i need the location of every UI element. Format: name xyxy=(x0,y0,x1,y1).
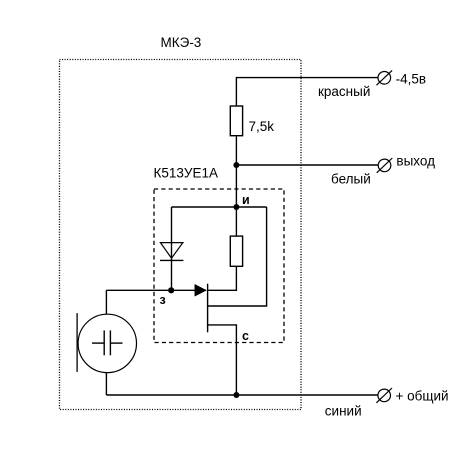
wire: output node to выход terminal xyxy=(236,164,378,166)
node и (source rail junction) xyxy=(233,204,239,210)
capacitor plates inside mic xyxy=(103,330,105,355)
node: output junction xyxy=(233,162,239,168)
terminal -4,5в circle xyxy=(378,72,391,85)
wire: R1 bottom to output node xyxy=(235,136,237,165)
terminal -4,5в slash xyxy=(377,70,393,85)
wire: source rail inside IC xyxy=(172,206,267,208)
resistor R2 (internal) xyxy=(230,236,242,266)
wire: output node down to node и xyxy=(235,165,237,207)
svg-text:выход: выход xyxy=(396,153,435,168)
diode VD (protection) triangle xyxy=(160,243,183,259)
transistor lower lead (drain с) down to common xyxy=(208,325,237,395)
terminal выход slash xyxy=(377,158,393,173)
wire: mic bottom lead xyxy=(105,373,107,395)
wire: mic top lead xyxy=(105,290,107,314)
transistor gate arrow xyxy=(195,284,207,296)
svg-text:7,5k: 7,5k xyxy=(249,119,275,134)
diode cathode bar xyxy=(160,259,183,261)
svg-text:с: с xyxy=(242,329,249,343)
wire: diode cathode to gate node з xyxy=(171,260,173,290)
svg-text:К513УЕ1А: К513УЕ1А xyxy=(154,166,218,181)
wire: rail left end down to diode anode xyxy=(171,207,173,260)
node: common bottom junction xyxy=(233,392,239,398)
svg-text:з: з xyxy=(160,293,166,307)
svg-text:синий: синий xyxy=(325,403,362,418)
terminal выход circle xyxy=(378,159,391,172)
microphone BM body circle xyxy=(78,314,136,372)
wire: R2 top to node и xyxy=(235,207,237,236)
svg-text:красный: красный xyxy=(318,84,370,99)
svg-text:белый: белый xyxy=(331,171,371,186)
svg-text:+ общий: + общий xyxy=(396,389,449,404)
transistor upper lead to R2 bottom xyxy=(208,266,237,290)
IC outline К513УЕ1А (dashed box) xyxy=(154,189,284,343)
wire: gate from microphone to transistor xyxy=(106,289,206,291)
resistor R1 7,5k xyxy=(230,106,242,136)
terminal + общий slash xyxy=(376,388,392,403)
module outline МКЭ-3 (dotted box) xyxy=(60,60,302,410)
svg-text:МКЭ-3: МКЭ-3 xyxy=(161,35,202,50)
wire: rail right end down to transistor middle lead xyxy=(208,207,267,306)
node з (gate junction) xyxy=(168,287,174,293)
wire: common bottom rail xyxy=(106,394,378,396)
transistor VT channel line xyxy=(207,284,209,333)
wire: resistor R1 top up and right to -4,5в terminal xyxy=(236,78,378,106)
svg-text:-4,5в: -4,5в xyxy=(396,71,426,86)
svg-text:и: и xyxy=(242,193,250,207)
microphone membrane line xyxy=(76,313,78,372)
terminal + общий circle xyxy=(378,389,391,402)
capacitor leads inside mic xyxy=(92,342,104,344)
